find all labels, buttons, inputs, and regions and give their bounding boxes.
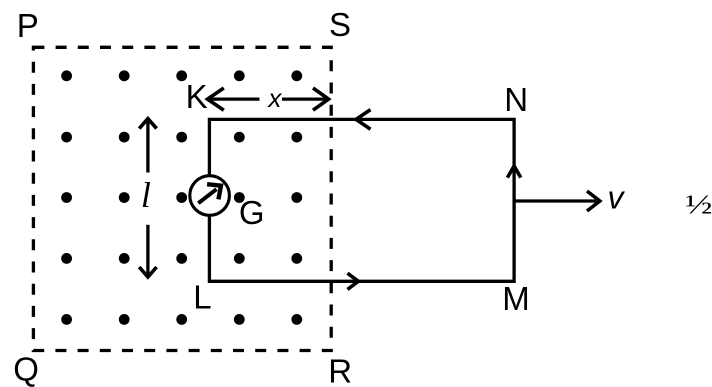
svg-text:P: P xyxy=(17,7,39,44)
svg-text:x: x xyxy=(266,83,282,113)
svg-text:M: M xyxy=(502,280,530,317)
svg-text:S: S xyxy=(329,6,351,43)
svg-text:L: L xyxy=(193,278,211,315)
svg-text:½: ½ xyxy=(685,188,712,219)
svg-text:R: R xyxy=(328,352,352,387)
svg-text:N: N xyxy=(504,81,528,118)
svg-text:l: l xyxy=(141,175,151,215)
svg-text:v: v xyxy=(608,179,626,215)
svg-text:Q: Q xyxy=(13,351,39,387)
svg-text:G: G xyxy=(239,194,265,231)
svg-text:K: K xyxy=(186,78,208,115)
